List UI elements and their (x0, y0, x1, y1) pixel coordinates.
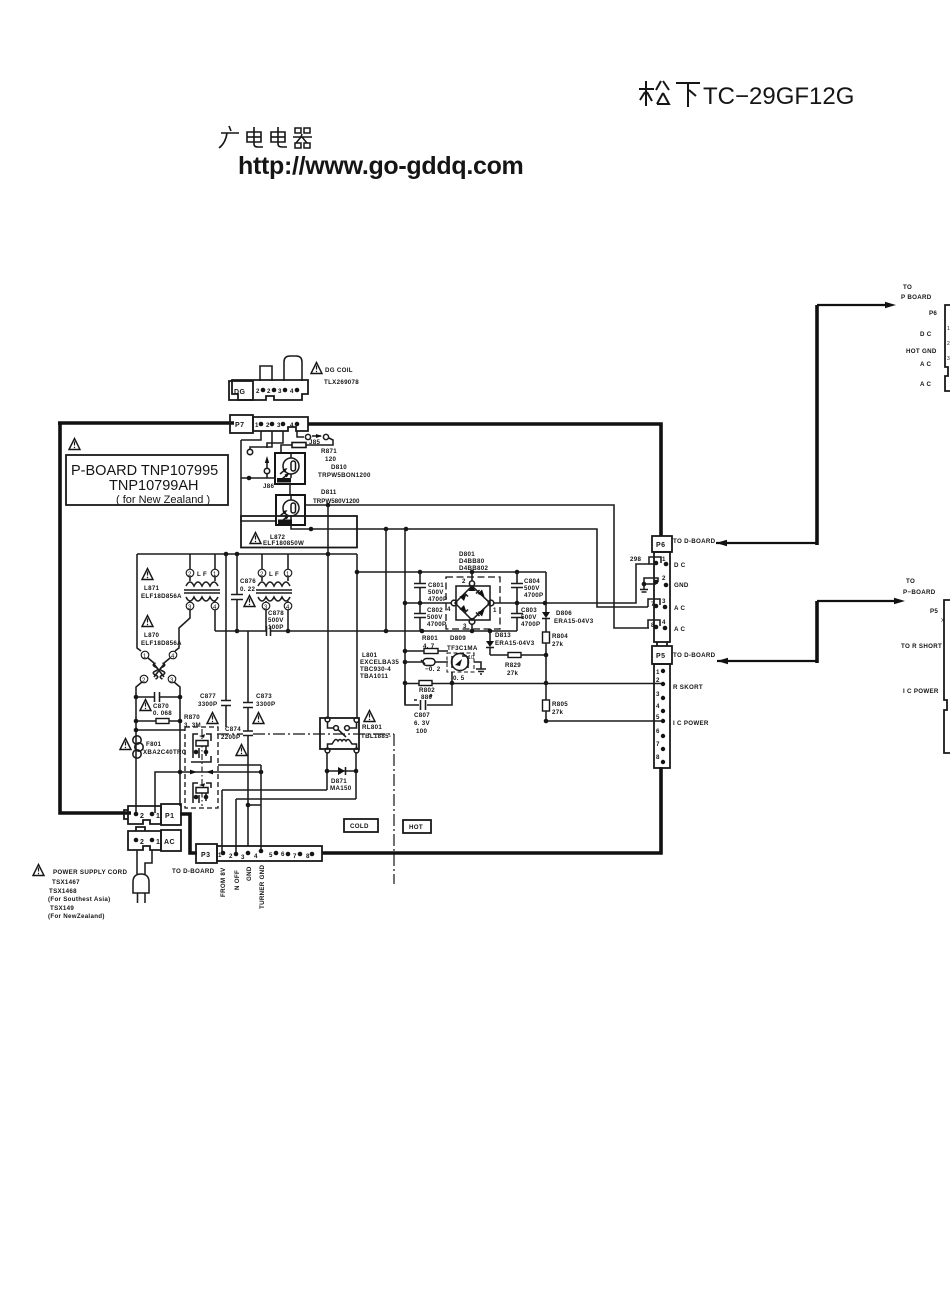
transformer LB71 (184, 554, 220, 611)
wire LB71 pin3 down-left to L870 pin4 (175, 610, 190, 651)
svg-text:P1: P1 (165, 813, 174, 820)
wire relay left down (326, 753, 328, 790)
node x422 on rail (420, 629, 425, 634)
capacitor C803 (511, 603, 540, 631)
resistor R804 (543, 632, 569, 655)
wire x405 chain riser (404, 529, 406, 704)
node (545,603) (543, 601, 548, 606)
node (546,655) (544, 653, 549, 658)
warning triangle C876 (244, 596, 255, 607)
capacitor C877 drop x226 (198, 554, 231, 727)
svg-text:6: 6 (656, 728, 660, 735)
svg-text:1: 1 (156, 813, 160, 820)
degauss posistor dashed box (185, 727, 218, 808)
svg-text:2: 2 (662, 575, 666, 582)
node x472 on rail (470, 629, 475, 634)
wire D811 right to P6 pin4 riser (305, 505, 649, 628)
svg-text:4: 4 (290, 422, 294, 429)
wire mid DC right segment y603 to P6 pin1 riser (493, 564, 648, 603)
node (546,721) (544, 719, 549, 724)
svg-text:ERA15-04V3: ERA15-04V3 (495, 640, 535, 647)
svg-text:TBA1011: TBA1011 (360, 673, 388, 680)
svg-text:P6: P6 (656, 542, 665, 549)
wire P3 pin1 riser (221, 790, 223, 853)
svg-text:D809: D809 (450, 635, 466, 642)
svg-text:POWER SUPPLY CORD: POWER SUPPLY CORD (53, 869, 127, 876)
warning triangle L870 (142, 616, 153, 627)
svg-text:C870: C870 (153, 703, 169, 710)
connector P3 box (196, 844, 217, 863)
wire thick top edge left of P7 (58, 421, 234, 425)
svg-text:P6: P6 (929, 310, 937, 317)
resistor R802 (419, 681, 435, 702)
triac D809 (447, 653, 474, 682)
fuse F801 (133, 736, 187, 758)
node x490 on rail (488, 629, 493, 634)
svg-text:3: 3 (656, 691, 660, 698)
svg-text:TBC930-4: TBC930-4 (360, 666, 391, 673)
node (405,683) (403, 681, 408, 686)
resistor R801 (405, 635, 448, 654)
wire x180 extension to P1 shell (179, 772, 181, 806)
wire bridge top feed y572 (357, 571, 546, 573)
svg-text:D871: D871 (331, 778, 347, 785)
diode D806 (542, 610, 594, 632)
svg-text:298: 298 (630, 556, 641, 563)
capacitor C870 (134, 692, 183, 717)
connector DG label box (229, 381, 253, 400)
svg-text:P5: P5 (930, 608, 938, 615)
connector P7 box (230, 415, 253, 433)
node on 529 wire x311 (309, 527, 314, 532)
P-BOARD label box (66, 455, 228, 505)
wire left rail down to D811 left (241, 440, 277, 521)
node C876 bottom (235, 629, 240, 634)
posistor lower (193, 783, 211, 803)
svg-text:RL801: RL801 (362, 724, 382, 731)
svg-text:R802: R802 (419, 687, 435, 694)
wire left drop x137 to L870 pin1 (137, 554, 141, 651)
resistor R805 (543, 683, 569, 721)
arrows on y772 (190, 770, 197, 775)
P7 pins 1 2 3 4 (255, 422, 299, 429)
chain line hot/cold boundary horizontal (217, 733, 394, 735)
node (261,772) (259, 770, 264, 775)
P5 pins 1-8 (656, 669, 665, 764)
svg-text:D4BB80: D4BB80 (459, 558, 485, 565)
svg-text:R804: R804 (552, 633, 568, 640)
svg-text:TO D-BOARD: TO D-BOARD (673, 652, 716, 659)
capacitor C874 (221, 726, 253, 846)
svg-text:TO: TO (906, 578, 915, 585)
svg-text:7: 7 (656, 741, 660, 748)
wire IC POWER y721 to P5 pin5 (546, 720, 662, 722)
svg-text:8: 8 (306, 853, 310, 860)
svg-text:D813: D813 (495, 632, 511, 639)
resistor R870 (134, 714, 201, 729)
wire mid AC left segment y603 (405, 602, 451, 604)
svg-text:XBA2C40TRC: XBA2C40TRC (143, 749, 187, 756)
warning triangle L871 (142, 569, 153, 580)
P3 pins 1-8 (218, 849, 314, 861)
svg-text:A C: A C (674, 626, 686, 633)
wire R871 to D810 (281, 445, 292, 453)
wire LB71 pin4 down to rail (214, 610, 216, 631)
node (357,572) (355, 570, 360, 575)
svg-text:R SKORT: R SKORT (673, 684, 703, 691)
wire AC pin1 to plug (145, 850, 152, 874)
svg-text:D811: D811 (321, 489, 337, 496)
node on 529 wire x386 (384, 527, 389, 532)
svg-text:http://www.go-gddq.com: http://www.go-gddq.com (238, 152, 523, 180)
bridge rectifier D801 dashed box (446, 577, 500, 629)
wire bridge top stub (471, 572, 473, 581)
svg-text:C876: C876 (240, 578, 256, 585)
svg-text:7: 7 (293, 853, 297, 860)
svg-text:4: 4 (662, 619, 666, 626)
header CJK 电 (2) (271, 127, 287, 147)
svg-text:D C: D C (920, 331, 932, 338)
bridge diamond with diodes (451, 581, 494, 624)
DG coil winding loops (260, 366, 272, 381)
svg-text:TC−29GF12G: TC−29GF12G (703, 83, 854, 110)
svg-text:27k: 27k (552, 641, 563, 648)
svg-text:−0. 2: −0. 2 (425, 666, 441, 673)
warning triangle power cord (33, 865, 44, 876)
svg-text:TO: TO (903, 284, 912, 291)
svg-text:4: 4 (656, 703, 660, 710)
node (180,772) (178, 770, 183, 775)
svg-text:TSX1468: TSX1468 (49, 888, 77, 895)
svg-text:TNP10799AH: TNP10799AH (109, 478, 198, 494)
wire J86 bottom rail (241, 477, 276, 479)
svg-text:TO R SHORT: TO R SHORT (901, 643, 942, 650)
node (405,662) (403, 660, 408, 665)
svg-text:4700P: 4700P (524, 592, 543, 599)
wire J85 to R871 (306, 438, 333, 445)
title CJK 下 (676, 83, 700, 107)
svg-text:C802: C802 (427, 607, 443, 614)
svg-text:AC: AC (164, 839, 175, 846)
node (248,805) (246, 803, 251, 808)
wire arrow P6 to P-BOARD (to D-BOARD left arrow) (716, 302, 896, 546)
svg-text:2: 2 (462, 578, 466, 585)
svg-text:TSX149: TSX149 (50, 905, 74, 912)
svg-text:3: 3 (278, 388, 282, 395)
svg-text:500V: 500V (268, 617, 284, 624)
svg-text:TURNER GND: TURNER GND (259, 865, 266, 909)
svg-text:A C: A C (674, 605, 686, 612)
svg-text:C801: C801 (428, 582, 444, 589)
svg-text:4700P: 4700P (428, 596, 447, 603)
warning triangle near R870 (207, 713, 218, 724)
capacitor C876 (231, 554, 256, 631)
svg-text:100P: 100P (268, 624, 284, 631)
wire P7 pin3 staircase (267, 431, 283, 448)
capacitor C807 loop (405, 683, 452, 735)
node C878 right (286, 629, 291, 634)
svg-text:( for New Zealand ): ( for New Zealand ) (116, 494, 210, 506)
node (420,603) (418, 601, 423, 606)
svg-text:1: 1 (662, 556, 666, 563)
node (546,683) (544, 681, 549, 686)
svg-text:C804: C804 (524, 578, 540, 585)
svg-text:D C: D C (674, 562, 686, 569)
svg-text:0. 5: 0. 5 (453, 675, 465, 682)
wire top AC rail y554 (137, 553, 357, 555)
P1 pins (134, 812, 139, 817)
label box COLD (344, 819, 378, 832)
P6 pin3 bracket (648, 598, 667, 609)
node on y572 x420 (418, 570, 423, 575)
svg-text:A C: A C (920, 361, 932, 368)
P6 strip stub to P5 (657, 642, 667, 646)
chain line vertical (393, 734, 395, 884)
svg-text:P5: P5 (656, 653, 665, 660)
svg-text:TO D-BOARD: TO D-BOARD (172, 868, 215, 875)
wire arrow P5 to P-BOARD (717, 598, 905, 664)
svg-text:1: 1 (493, 607, 497, 614)
svg-text:1: 1 (656, 669, 660, 676)
capacitor C804 (511, 572, 543, 603)
wire P1 pin1 riser and y772 run (155, 772, 261, 813)
svg-text:500V: 500V (428, 589, 444, 596)
svg-text:500V: 500V (427, 614, 443, 621)
svg-text:C803: C803 (521, 607, 537, 614)
svg-text:P3: P3 (201, 852, 210, 859)
capacitor C802 (414, 603, 446, 631)
svg-text:2: 2 (656, 677, 660, 684)
svg-text:(For NewZealand): (For NewZealand) (48, 913, 105, 920)
wire D811 bottom to P6 pin3 riser (291, 525, 648, 607)
transformer T872 secondary (256, 554, 292, 611)
svg-text:FROM 8V: FROM 8V (220, 867, 227, 897)
wire y799 relay-right to P3 pin2 riser (236, 798, 356, 800)
wire bridge bottom stub (471, 624, 473, 631)
node on 529 wire x406 (404, 527, 409, 532)
connector AC box (161, 830, 181, 851)
svg-text:R870: R870 (184, 714, 200, 721)
wire D806 feed corner from y572 (545, 572, 547, 612)
svg-text:(For Southest Asia): (For Southest Asia) (48, 896, 111, 903)
svg-text:HOT: HOT (409, 824, 423, 831)
svg-text:D806: D806 (556, 610, 572, 617)
jumper J86 (247, 449, 274, 490)
wire thick P1 to P3 (180, 814, 197, 853)
svg-text:2: 2 (266, 422, 270, 429)
wire y790 relay-left to P3 pin1 riser (222, 789, 327, 791)
svg-text:D801: D801 (459, 551, 475, 558)
wire J86 down to D810 bottom wire (266, 474, 268, 478)
svg-text:R829: R829 (505, 662, 521, 669)
wire R SHORT rail y683 to P5 pin2 (405, 683, 662, 685)
svg-text:3. 3M: 3. 3M (184, 722, 201, 729)
warning triangle L872 (250, 533, 261, 544)
svg-text:8: 8 (656, 754, 660, 761)
svg-text:5: 5 (656, 714, 660, 721)
warning triangle near C873 (253, 713, 264, 724)
connector AC shell (128, 827, 161, 850)
wire P3 pin2 riser (235, 799, 237, 854)
svg-text:3300P: 3300P (198, 701, 217, 708)
svg-text:ERA15-04V3: ERA15-04V3 (554, 618, 594, 625)
svg-text:2: 2 (267, 388, 271, 395)
svg-text:ELF18D856A: ELF18D856A (141, 640, 182, 647)
power plug (133, 874, 149, 903)
wire P7 pin4 to J85 (297, 431, 304, 437)
svg-text:P−BOARD: P−BOARD (903, 589, 936, 596)
svg-text:1: 1 (156, 839, 160, 846)
wire thick top edge P7 to right corner down to P6 (308, 424, 661, 536)
warning triangle F801 (120, 739, 131, 750)
svg-text:C877: C877 (200, 693, 216, 700)
shield box L872 (241, 516, 357, 548)
svg-text:500V: 500V (524, 585, 540, 592)
svg-text:8: 8 (651, 622, 655, 629)
node (517,603) (515, 601, 520, 606)
svg-text:R871: R871 (321, 448, 337, 455)
warning triangle RL801 (364, 711, 375, 722)
wire corner x357 rail to bridge feed y572 (356, 554, 358, 718)
svg-text:4: 4 (290, 388, 294, 395)
svg-text:10: 10 (468, 655, 474, 661)
svg-text:DG COIL: DG COIL (325, 367, 353, 374)
posistor upper (191, 734, 211, 762)
svg-text:5: 5 (269, 852, 273, 859)
connector DG outline (232, 380, 308, 400)
node x237 on rail (235, 552, 240, 557)
svg-text:3: 3 (662, 598, 666, 605)
svg-text:MA150: MA150 (330, 785, 352, 792)
wire bottom AC rail y631 (215, 630, 517, 632)
P6 pin2 bracket with ground (640, 575, 668, 592)
svg-text:C878: C878 (268, 610, 284, 617)
connector P3 strip (217, 846, 322, 861)
wire x261 down to P3 pin4 (260, 765, 262, 851)
svg-text:F801: F801 (146, 741, 162, 748)
wire x546 down to pin2 rail (545, 655, 547, 683)
diode D871 (325, 767, 359, 792)
svg-text:4: 4 (254, 853, 258, 860)
svg-text:TO D-BOARD: TO D-BOARD (673, 538, 716, 545)
wire relay right down (355, 753, 357, 799)
wire L870 pin3 down right rail x180 (174, 682, 180, 772)
node x386 on rail (384, 629, 389, 634)
photo-triac D811 (276, 495, 305, 525)
svg-text:TSX1467: TSX1467 (52, 879, 80, 886)
svg-text:L870: L870 (144, 632, 160, 639)
transformer L870 (common mode choke) (140, 651, 177, 684)
connector P7 strip (253, 417, 308, 431)
svg-text:I C POWER: I C POWER (903, 688, 939, 695)
svg-text:3: 3 (277, 422, 281, 429)
photo-triac D810 (275, 453, 305, 484)
connector P5 box (652, 646, 672, 664)
svg-text:27k: 27k (552, 709, 563, 716)
node D811 out (326, 503, 331, 508)
svg-text:2: 2 (140, 839, 144, 846)
degauss axis chain line (201, 729, 203, 806)
svg-text:R801: R801 (422, 635, 438, 642)
svg-text:C874: C874 (225, 726, 241, 733)
wire degauss to x261 y765 (218, 764, 261, 766)
connector P6 strip (654, 552, 670, 642)
svg-text:I C POWER: I C POWER (673, 720, 709, 727)
label box HOT (403, 820, 431, 833)
jumper J85 (305, 434, 328, 446)
connector P1 shell (124, 806, 161, 824)
svg-text:6: 6 (281, 851, 285, 858)
node dot on J86 wire (247, 476, 252, 481)
warning triangle DG (311, 363, 322, 374)
warning triangle C874 (236, 745, 247, 756)
svg-text:6. 3V: 6. 3V (414, 720, 431, 727)
warning triangle C870 (140, 700, 151, 711)
capacitor C801 (414, 572, 447, 603)
wire thick left border from top corner down to P1 then right (60, 423, 131, 813)
svg-text:2200P: 2200P (221, 734, 240, 741)
svg-text:3300P: 3300P (256, 701, 275, 708)
svg-text:A C: A C (920, 381, 932, 388)
off-page connector P6 (right edge) (906, 305, 950, 391)
svg-text:P BOARD: P BOARD (901, 294, 932, 301)
node x226 on rail (224, 552, 229, 557)
resistor R829 (490, 653, 545, 678)
node (136,730) (134, 728, 139, 733)
resistor R871 (292, 443, 306, 448)
svg-text:COLD: COLD (350, 823, 369, 830)
svg-text:TRPW580V1200: TRPW580V1200 (313, 498, 360, 505)
P6 pin4 bracket (648, 619, 667, 630)
header CJK 器 (293, 128, 312, 148)
svg-text:GND: GND (674, 582, 689, 589)
node (452,683) (450, 681, 455, 686)
wire riser from rail to relay (x328) (327, 505, 329, 718)
wire D810 to D811 (289, 484, 291, 495)
svg-text:4: 4 (447, 606, 451, 613)
svg-text:3: 3 (241, 854, 245, 861)
wire D809 bottom to R802 rail (451, 672, 453, 683)
wire L870 pin2 down left rail x136 (136, 682, 142, 813)
node x328 on rail (326, 552, 331, 557)
svg-text:ELF18D856A: ELF18D856A (141, 593, 182, 600)
node on y572 x517 (515, 570, 520, 575)
AC pins (134, 838, 139, 843)
svg-text:D810: D810 (331, 464, 347, 471)
wire y805 link (248, 804, 261, 806)
svg-text:DG: DG (234, 389, 245, 396)
svg-text:120: 120 (325, 456, 336, 463)
svg-text:L801: L801 (362, 652, 378, 659)
svg-text:2: 2 (256, 388, 260, 395)
P6 pin1 bracket (648, 556, 668, 566)
svg-text:HOT GND: HOT GND (906, 348, 937, 355)
title CJK 松 (639, 81, 669, 106)
svg-text:L F: L F (269, 571, 279, 578)
thermistor -0.2 (405, 659, 448, 674)
svg-text:27k: 27k (507, 670, 518, 677)
connector P5 strip (654, 664, 670, 768)
wire thick P3 strip to right riser up to P5 (322, 767, 661, 853)
svg-text:L F: L F (197, 571, 207, 578)
connector P6 box (652, 536, 672, 552)
svg-text:2: 2 (229, 853, 233, 860)
svg-text:TRPW5BON1200: TRPW5BON1200 (318, 472, 371, 479)
svg-text:4. 7: 4. 7 (423, 643, 435, 650)
svg-text:2: 2 (140, 813, 144, 820)
node on y572 x472 (470, 570, 475, 575)
wire P7 pin2 staircase to J86 top circle (250, 431, 272, 449)
